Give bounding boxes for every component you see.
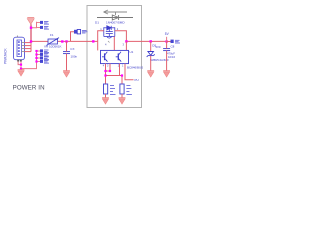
svg-text:F1: F1 [50, 33, 54, 37]
svg-text:PU: PU [135, 78, 139, 82]
wire transistor feeds [98, 41, 127, 50]
connector X1 shield pins [17, 60, 22, 62]
wire snubber middle drop [113, 37, 115, 51]
ground symbol at R1 [102, 98, 109, 104]
wire zener bottom [150, 56, 152, 71]
capacitor CX [63, 52, 70, 54]
wire R1 bottom [105, 94, 107, 98]
diode D1 value label [95, 21, 125, 25]
tick mark under snubber [108, 41, 110, 43]
transistor pack U2 [101, 50, 129, 63]
ground symbol at zener [147, 71, 154, 77]
connector X1 pin stubs [18, 36, 25, 52]
resistor R1 labels [110, 86, 116, 95]
wire main net right segment [126, 40, 166, 42]
resistor R2 [120, 84, 124, 94]
junction mesh c [104, 74, 106, 76]
connector X1 inner pins [18, 41, 20, 55]
transistor pack pin numbers top [105, 43, 125, 47]
svg-text:D1: D1 [95, 21, 99, 25]
net flag N [37, 26, 50, 29]
snubber network diode/cap [104, 26, 115, 38]
wire snubber left feed [98, 31, 104, 42]
ground symbol at C8 [163, 71, 170, 77]
net flag GND row 1 [35, 49, 49, 52]
wire from port arrow to main net [30, 24, 32, 41]
connector X1 power jack body [14, 37, 25, 60]
wire connector pin 3 [25, 48, 32, 50]
net flag GND row 3 [35, 56, 49, 59]
ground symbol at R2 [119, 98, 126, 104]
resistor R1 [104, 84, 108, 94]
wire fuse riser [71, 32, 75, 42]
wire emitter base mesh [106, 64, 134, 84]
junction capacitor CX branch [65, 40, 67, 42]
junction fuse branch [61, 40, 63, 42]
wire C8 top [166, 42, 168, 49]
svg-text:5V0: 5V0 [156, 45, 161, 49]
svg-text:10/16: 10/16 [168, 55, 175, 59]
capacitor C8 [163, 49, 170, 51]
wire shield to ground [18, 51, 36, 70]
wire zener top [150, 41, 152, 51]
net flag L [37, 21, 50, 24]
power input port arrow [27, 18, 34, 25]
svg-text:POWER IN: POWER IN [13, 84, 45, 91]
ground symbol at capacitor CX [63, 71, 70, 77]
wire branch to net flags [31, 22, 37, 28]
svg-text:100n: 100n [71, 55, 78, 59]
junction stray left [92, 40, 94, 42]
junction shield ground [20, 68, 22, 70]
junction output node [165, 40, 167, 42]
wire cap bottom [66, 54, 68, 71]
output net flag [171, 40, 181, 43]
junction mesh a [104, 70, 106, 72]
wire main net left segment [31, 40, 98, 42]
svg-text:C8: C8 [171, 45, 175, 49]
fuse F2 [74, 30, 81, 34]
junction at port branch [30, 27, 32, 29]
varistor VR1 [47, 38, 60, 46]
junction shield merge [20, 64, 22, 66]
transistor pack pin numbers bottom [103, 64, 124, 67]
svg-text:BC846/BUS: BC846/BUS [127, 65, 143, 69]
junction mesh d [121, 74, 123, 76]
junction mesh b [109, 70, 111, 72]
net flag GND row 4 [35, 60, 49, 63]
resistor R2 labels [126, 86, 131, 95]
transistor Q A [104, 53, 106, 60]
svg-text:1N4007/SMD: 1N4007/SMD [106, 21, 125, 25]
svg-text:PWRJACK: PWRJACK [4, 48, 8, 64]
wire connector pin 2 [25, 45, 32, 47]
wire output stub [167, 41, 171, 43]
wire connector pin 1 [25, 42, 32, 44]
zener diode D5 [147, 52, 155, 57]
wire connector pin 4 [25, 51, 32, 53]
junction snubber right riser [125, 40, 127, 42]
wire R2 bottom [121, 94, 123, 98]
wire pin bus vertical [30, 42, 32, 52]
svg-text:VR 10D561K: VR 10D561K [44, 44, 62, 48]
svg-text:CX: CX [70, 47, 74, 51]
net flag GND row 2 [35, 53, 49, 56]
fuse F2 value label [82, 30, 88, 33]
wire C8 bottom [166, 51, 168, 71]
wire snubber right feed [115, 31, 127, 42]
current-flow arrow annotation [104, 10, 128, 15]
ground symbol at connector [18, 70, 25, 76]
svg-text:SMBJ5.0A/600: SMBJ5.0A/600 [150, 58, 169, 62]
wire cap top [66, 42, 68, 52]
svg-text:U1: U1 [130, 50, 134, 54]
junction zener branch [150, 40, 152, 42]
junction main net at connector [30, 40, 32, 42]
transistor Q B [117, 53, 119, 60]
diode D1 [97, 15, 133, 20]
module outline box [87, 6, 142, 108]
wire output riser [166, 37, 168, 42]
